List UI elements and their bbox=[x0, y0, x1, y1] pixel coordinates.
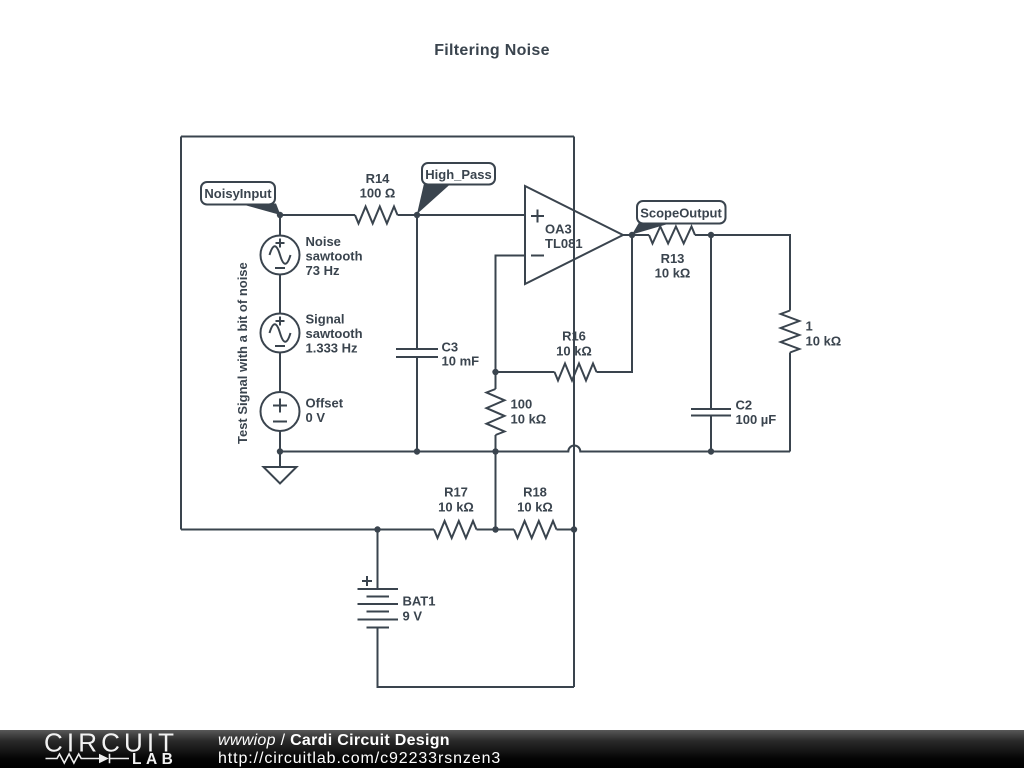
wire battery bottom loop bbox=[378, 628, 575, 688]
source V Noise sawtooth 73 Hz bbox=[261, 234, 363, 278]
svg-text:wwwiop / Cardi Circuit Design: wwwiop / Cardi Circuit Design bbox=[218, 732, 450, 749]
wire NoisyInput node to R14 bbox=[280, 214, 355, 216]
wire R13 to C2 node bbox=[695, 234, 711, 236]
node battery tap bbox=[374, 526, 380, 532]
wire R18 to right rail bbox=[557, 529, 575, 531]
wire offset source to ground rail bbox=[279, 431, 281, 452]
svg-text:High_Pass: High_Pass bbox=[425, 167, 491, 182]
node R18 right rail bbox=[571, 526, 577, 532]
flag ScopeOutput bbox=[632, 201, 726, 235]
resistor R17 bbox=[434, 485, 477, 539]
node feedback junction bbox=[492, 369, 498, 375]
resistor R18 bbox=[514, 485, 557, 539]
wire C2 node to right branch bbox=[711, 235, 790, 311]
svg-text:C3: C3 bbox=[442, 340, 459, 355]
resistor R16 bbox=[555, 329, 597, 381]
svg-text:sawtooth: sawtooth bbox=[306, 249, 363, 264]
resistor R13 bbox=[649, 227, 695, 281]
flag High_Pass bbox=[417, 163, 495, 214]
svg-text:10 kΩ: 10 kΩ bbox=[438, 500, 474, 515]
wire between noise and signal sources bbox=[279, 275, 281, 315]
node ground rail at C2 bbox=[708, 448, 714, 454]
wire right vertical rail bbox=[573, 137, 575, 688]
svg-text:10 mF: 10 mF bbox=[442, 354, 480, 369]
wire R16 to feedback node bbox=[496, 371, 555, 373]
svg-text:0 V: 0 V bbox=[306, 410, 326, 425]
svg-text:10 kΩ: 10 kΩ bbox=[517, 500, 553, 515]
svg-text:LAB: LAB bbox=[132, 751, 177, 768]
wire battery tap down from bottom rail bbox=[377, 530, 379, 590]
node R13 C2 junction bbox=[708, 232, 714, 238]
flag NoisyInput bbox=[201, 182, 281, 215]
wire op-amp output bbox=[623, 234, 649, 236]
svg-text:Filtering Noise: Filtering Noise bbox=[434, 42, 550, 59]
node R17 R18 junction bbox=[492, 526, 498, 532]
wire bottom rail left segment bbox=[181, 529, 434, 531]
wire outer box left bbox=[180, 137, 182, 530]
svg-text:BAT1: BAT1 bbox=[403, 594, 436, 609]
svg-text:C2: C2 bbox=[736, 398, 753, 413]
wire source chain top bbox=[279, 215, 281, 236]
svg-text:R13: R13 bbox=[661, 251, 685, 266]
svg-text:10 kΩ: 10 kΩ bbox=[556, 344, 592, 359]
wire between signal and offset sources bbox=[279, 353, 281, 393]
svg-text:Test Signal with a bit of nois: Test Signal with a bit of noise bbox=[235, 262, 250, 444]
resistor 1 10k bbox=[781, 311, 842, 452]
capacitor C3 bbox=[396, 215, 479, 452]
svg-text:100: 100 bbox=[511, 397, 533, 412]
svg-text:9 V: 9 V bbox=[403, 609, 423, 624]
op-amp OA3 TL081 bbox=[525, 186, 623, 284]
svg-text:1: 1 bbox=[806, 319, 813, 334]
resistor 100 10k bbox=[487, 372, 547, 530]
svg-text:Signal: Signal bbox=[306, 312, 345, 327]
svg-text:NoisyInput: NoisyInput bbox=[204, 186, 272, 201]
wire op-amp minus input bbox=[496, 256, 526, 373]
svg-text:Offset: Offset bbox=[306, 396, 344, 411]
svg-text:Noise: Noise bbox=[306, 234, 341, 249]
wire High_Pass node to op-amp + input bbox=[417, 214, 525, 216]
ground rail wire with hop over right vertical bbox=[280, 446, 790, 452]
svg-text:OA3: OA3 bbox=[545, 222, 572, 237]
svg-text:73 Hz: 73 Hz bbox=[306, 263, 340, 278]
svg-text:R17: R17 bbox=[444, 485, 468, 500]
ground symbol bbox=[264, 452, 297, 484]
wire R14 to High_Pass node bbox=[398, 214, 418, 216]
node ground rail at sources bbox=[277, 448, 283, 454]
footer bar bbox=[0, 730, 1024, 768]
wire between R17 and R18 bbox=[477, 529, 515, 531]
node ScopeOutput bbox=[629, 232, 635, 238]
svg-text:R14: R14 bbox=[366, 171, 391, 186]
svg-text:10 kΩ: 10 kΩ bbox=[806, 334, 842, 349]
node High_Pass bbox=[414, 212, 420, 218]
svg-text:TL081: TL081 bbox=[545, 236, 583, 251]
battery BAT1 9 V bbox=[358, 576, 436, 628]
svg-text:ScopeOutput: ScopeOutput bbox=[640, 206, 722, 221]
logo resistor-diode glyph bbox=[46, 754, 130, 764]
node ground rail at C3 bbox=[414, 448, 420, 454]
svg-text:R18: R18 bbox=[523, 485, 547, 500]
source V Signal sawtooth 1.333 Hz bbox=[261, 312, 363, 356]
svg-text:R16: R16 bbox=[562, 329, 586, 344]
svg-text:http://circuitlab.com/c92233rs: http://circuitlab.com/c92233rsnzen3 bbox=[218, 750, 501, 767]
svg-text:10 kΩ: 10 kΩ bbox=[511, 412, 547, 427]
resistor R14 bbox=[355, 171, 398, 224]
capacitor C2 bbox=[691, 235, 776, 452]
node ground rail at 100 resistor bbox=[492, 448, 498, 454]
svg-text:10 kΩ: 10 kΩ bbox=[655, 266, 691, 281]
source V Offset 0 V bbox=[261, 392, 344, 431]
wire outer box top bbox=[181, 136, 574, 138]
svg-text:1.333 Hz: 1.333 Hz bbox=[306, 341, 359, 356]
svg-text:100 Ω: 100 Ω bbox=[360, 186, 396, 201]
wire feedback from output node down bbox=[597, 235, 633, 372]
node NoisyInput bbox=[277, 212, 283, 218]
svg-text:sawtooth: sawtooth bbox=[306, 326, 363, 341]
svg-text:100 µF: 100 µF bbox=[736, 412, 777, 427]
